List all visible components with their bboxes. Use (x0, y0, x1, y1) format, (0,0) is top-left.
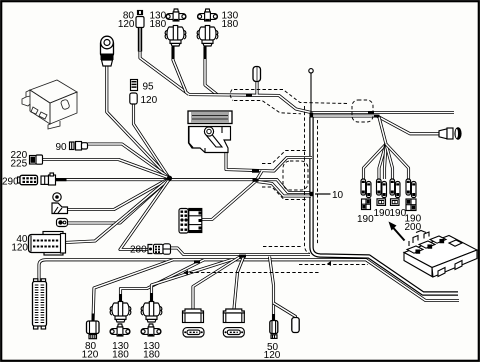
connector 280 body (154, 244, 171, 254)
svg-text:280: 280 (130, 245, 147, 256)
wire from connector 40/120 to hub (65, 179, 169, 243)
grille component (188, 111, 232, 124)
svg-text:120: 120 (82, 350, 99, 361)
svg-text:225: 225 (11, 159, 28, 170)
ground bracket (52, 203, 68, 214)
svg-text:190: 190 (357, 214, 374, 225)
capsule stub connector top (253, 67, 261, 82)
connector 40/120 (29, 232, 66, 256)
fuse holder 1 (361, 179, 371, 198)
svg-text:120: 120 (141, 95, 158, 106)
svg-text:290: 290 (2, 177, 19, 188)
clip 130/180 bottom left (110, 302, 131, 323)
wire fuse fan feed (379, 117, 386, 144)
wire drop to connector 50/120 (270, 257, 274, 321)
wire branch to capsule connector right of 50/120 (274, 303, 296, 319)
fuse icon 1 (362, 199, 371, 210)
wire from top connector 80/120 down to engine run (140, 50, 189, 95)
wire black segment into bottom clip right (150, 293, 153, 304)
leader line 10 (315, 193, 331, 195)
wire from relay block diagonal to junction (202, 171, 262, 220)
wire stub capsule on top run (255, 81, 258, 95)
svg-text:90: 90 (56, 142, 68, 153)
connector 290 mate (41, 173, 56, 185)
junction top run left (246, 94, 252, 97)
wire fan to fuse holder 1 (364, 144, 387, 179)
fuse icon 4 (406, 199, 416, 211)
svg-text:180: 180 (143, 350, 160, 361)
wire from clip 130/180 top right (205, 47, 217, 95)
junction bundle 1 (194, 260, 200, 263)
wire fan to fuse holder 4 (386, 144, 409, 179)
wing symbol bottom left (110, 324, 130, 336)
junction top horizontal (368, 111, 374, 114)
svg-text:180: 180 (112, 350, 129, 361)
wire from connector 220/225 to hub (43, 160, 170, 178)
dashed outline top run (234, 90, 348, 104)
wire 290 line through hub to trunk (56, 180, 313, 193)
svg-text:120: 120 (118, 19, 135, 30)
svg-text:180: 180 (150, 19, 167, 30)
connector 280 bracket (148, 245, 153, 254)
junction y171 (252, 170, 259, 173)
arrow to fuse box (389, 222, 405, 241)
connector 290 striped (18, 175, 38, 184)
fuse and relay module 3d (404, 231, 477, 278)
fuse icon 2 (377, 199, 386, 206)
wire antenna ball stem (310, 73, 312, 114)
dashed corridor bottom (299, 264, 368, 266)
junction trunk top (310, 113, 314, 118)
antenna ball (309, 69, 313, 73)
junction bundle 2 (239, 255, 246, 258)
svg-text:120: 120 (264, 350, 281, 361)
fuse holder 2 (377, 179, 387, 198)
wire drop to square connector bottom 1 (193, 257, 241, 310)
ring terminal (53, 193, 61, 201)
dashed trunk right (317, 120, 319, 244)
svg-text:190: 190 (374, 208, 391, 219)
fuse icon 3 (391, 199, 400, 206)
wire black segment into top clip right (204, 46, 207, 59)
wire from cylinder sensor to hub (107, 66, 169, 178)
connector 220/225 (30, 155, 43, 164)
dashed trunk left (305, 106, 311, 254)
dashed long lower line (184, 272, 320, 274)
wire drop to square connector bottom 2 (234, 257, 244, 309)
wire black segment into connector 50/120 (272, 314, 275, 321)
junction y180 (253, 179, 259, 182)
cylinder sensor (101, 36, 114, 66)
round connector right (439, 127, 462, 139)
wire from connector 90 to hub (86, 144, 169, 178)
connector 50/120 (270, 321, 278, 339)
wire bundle out of connector 280 (171, 248, 311, 255)
relay block (179, 209, 202, 234)
wing symbol bottom right (141, 324, 161, 336)
dashed arrow mark 1 (327, 261, 331, 266)
dashed outline above bracket wire (262, 151, 308, 164)
wire top horizontal to right edge (311, 111, 454, 114)
wire to round connector right (311, 116, 440, 134)
connector 95 (131, 80, 138, 91)
capsule connector right of 50/120 (292, 318, 299, 333)
junction at connector feed (374, 115, 380, 118)
wire drop to connector 80/120 bottom (93, 260, 173, 321)
dashed corridor top (263, 246, 302, 248)
wire fan to fuse holder 2b (385, 144, 387, 179)
dashed arrow mark 2 (184, 270, 189, 275)
clip 130/180 top left (165, 26, 186, 47)
wire top engine run to junction (189, 95, 311, 113)
wire black segment at 290 connector (56, 178, 67, 181)
wire black segment into top clip left (172, 46, 175, 59)
clip 130/180 top right (197, 26, 218, 47)
wire drop to clip 130/180 bottom right (152, 260, 232, 303)
svg-text:180: 180 (222, 19, 239, 30)
connector 120 mid (130, 93, 137, 104)
wire from bracket component down and right to trunk (226, 153, 312, 171)
wire from connector 120 (95/120) to hub (134, 104, 170, 178)
wire trunk corner to right diagonal (312, 117, 459, 294)
wire fan to fuse holder 3 (386, 144, 393, 179)
fuse strip left bottom (33, 279, 47, 329)
control unit box (ghost) top left (22, 80, 77, 129)
oval plug icon 2 (223, 328, 244, 337)
injector wing symbol top right (198, 9, 218, 21)
square connector bottom 2 (223, 309, 244, 323)
wire bundle from fuse strip (39, 260, 459, 301)
dashed outline below lower cable (262, 187, 307, 200)
injector wing symbol top left (166, 9, 186, 21)
wire from clip 130/180 top left (173, 47, 186, 92)
square connector bottom 1 (183, 309, 204, 323)
wire from small connector to hub (67, 179, 169, 223)
connector 80/120 bottom (87, 321, 100, 339)
fuse holder 4 (406, 179, 416, 198)
wire parallel cable to trunk lower junction (257, 182, 311, 197)
svg-text:10: 10 (332, 190, 344, 201)
wire hub to connector 280 (120, 179, 170, 250)
wire from ring terminal to hub (66, 179, 169, 210)
wire drop to clip 130/180 bottom left (121, 260, 205, 303)
connector 90 (70, 142, 88, 151)
svg-text:120: 120 (11, 243, 28, 254)
oval plug icon 1 (183, 328, 204, 337)
dashed box left of trunk (283, 161, 308, 190)
wire black segment into connector 80/120 bottom (92, 314, 95, 322)
bracket component (189, 127, 231, 153)
connector 80/120 top (136, 11, 144, 52)
clip 130/180 bottom right (141, 302, 162, 323)
svg-text:95: 95 (143, 82, 155, 93)
junction trunk at 10 (310, 192, 314, 196)
wire black segment into bottom clip left (119, 294, 122, 304)
fuse holder 3 (390, 179, 400, 198)
dashed box near trunk top (352, 100, 373, 122)
hub junction (167, 176, 172, 181)
wire fan to fuse holder 2 (379, 144, 386, 179)
small connector (grommet) (57, 219, 68, 227)
